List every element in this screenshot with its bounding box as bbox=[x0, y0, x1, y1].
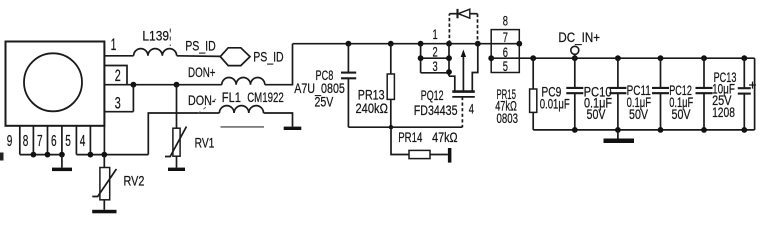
node PR13/PR14/gate bbox=[389, 125, 393, 129]
junction diode cathode lead bbox=[475, 41, 481, 47]
wire pin 6 leg bbox=[61, 126, 63, 155]
svg-text:4: 4 bbox=[469, 100, 474, 116]
svg-text:PS_ID: PS_ID bbox=[253, 49, 284, 64]
junction ladder right pin 2 bbox=[446, 55, 452, 61]
junction PC10 top bbox=[615, 55, 621, 61]
junction ladder right pin 3 / source lead bbox=[446, 69, 452, 75]
resistor PR13 bbox=[390, 44, 392, 74]
wire output rail DC_IN+ net bbox=[491, 57, 754, 59]
svg-text:7: 7 bbox=[37, 133, 43, 150]
wire pin 7 leg bbox=[47, 126, 49, 155]
svg-text:DON+: DON+ bbox=[188, 65, 216, 80]
svg-text:DC_IN+: DC_IN+ bbox=[558, 30, 600, 45]
noise dashes near L139 bbox=[169, 29, 171, 47]
svg-text:CM1922: CM1922 bbox=[247, 90, 284, 105]
choke FL1 top winding bbox=[222, 78, 265, 85]
ground (FL1 bottom) bbox=[284, 127, 302, 130]
svg-text:240kΩ: 240kΩ bbox=[356, 101, 388, 116]
junction ladder right rail / diode anode lead bbox=[446, 41, 452, 47]
node RV1 on DON+ bbox=[174, 82, 180, 88]
svg-text:50V: 50V bbox=[672, 107, 691, 122]
svg-text:7: 7 bbox=[503, 29, 508, 45]
junction pin box left edge / drain net bbox=[488, 55, 494, 61]
MOSFET PQ12 drain lead bbox=[472, 44, 478, 92]
wire PQ12 pins 1-3 ladder left rail bbox=[420, 44, 422, 73]
junction PC13 bottom bbox=[741, 127, 747, 133]
connector J1 circle bbox=[24, 53, 82, 111]
wire L139 to hexagon bbox=[177, 55, 221, 58]
ground (PR14, vertical bar) bbox=[448, 148, 452, 163]
choke FL1 bottom winding bbox=[219, 106, 263, 113]
svg-text:5: 5 bbox=[65, 133, 71, 150]
ground (RV1) bbox=[168, 168, 185, 171]
svg-text:1208: 1208 bbox=[712, 105, 735, 120]
ground (pin bus) bbox=[61, 155, 63, 168]
junction PC8 top bbox=[346, 41, 352, 47]
svg-text:50V: 50V bbox=[629, 107, 648, 122]
wire pin 8 leg bbox=[32, 126, 34, 155]
off-page connector hexagon PS_ID bbox=[220, 48, 250, 66]
wire ladder rung pin 2 bbox=[421, 57, 449, 59]
body diode of PQ12 bbox=[448, 14, 450, 44]
svg-text:PQ12: PQ12 bbox=[421, 88, 444, 103]
svg-text:6: 6 bbox=[51, 133, 57, 150]
capacitor PC12 bbox=[703, 58, 705, 87]
resistor PR15 bbox=[532, 58, 534, 89]
junction DC_IN+/PC9 top bbox=[572, 55, 578, 61]
wire pin 9 leg bbox=[19, 126, 21, 155]
junction PR15 top bbox=[530, 55, 536, 61]
junction PC12 top bbox=[701, 55, 707, 61]
svg-text:1: 1 bbox=[111, 35, 117, 54]
svg-text:2: 2 bbox=[115, 66, 121, 85]
svg-text:DON-: DON- bbox=[188, 93, 216, 108]
svg-text:8: 8 bbox=[503, 13, 508, 29]
svg-text:3: 3 bbox=[115, 93, 121, 112]
MOSFET PQ12 source lead bbox=[449, 76, 455, 91]
svg-text:3: 3 bbox=[433, 58, 438, 74]
resistor PR14 bbox=[391, 127, 409, 154]
svg-text:47kΩ: 47kΩ bbox=[432, 130, 458, 145]
ground (RV2) bbox=[92, 210, 116, 214]
wire DON+ (pin2 to FL1) bbox=[104, 84, 221, 86]
junction ladder left pin 2 bbox=[418, 55, 424, 61]
junction pin 8 bbox=[31, 152, 37, 158]
wire bus pins 5,4 to DON- bbox=[76, 154, 148, 156]
capacitor PC10 bbox=[617, 58, 619, 87]
wire FL1 bottom to ground bbox=[264, 113, 293, 127]
choke core line bbox=[221, 126, 265, 128]
svg-text:4: 4 bbox=[80, 133, 86, 150]
junction pin 4 bbox=[88, 152, 94, 158]
junction PC10 bottom / ground bbox=[615, 127, 621, 133]
varistor RV2 bbox=[103, 155, 105, 168]
junction PC11 top bbox=[658, 55, 664, 61]
wire gate lead pin 4 bbox=[461, 97, 463, 127]
wire right edge bbox=[754, 58, 756, 130]
wire DON- bbox=[148, 113, 219, 155]
pin 3 box bbox=[104, 111, 133, 113]
junction PR13 top bbox=[388, 41, 394, 47]
ground (main, bottom bus) bbox=[617, 130, 619, 139]
svg-text:L139: L139 bbox=[142, 29, 169, 44]
junction PC12 bottom bbox=[701, 127, 707, 133]
connector J1 body bbox=[6, 42, 105, 126]
wire FL1 top to riser bbox=[265, 44, 293, 85]
svg-text:9: 9 bbox=[7, 133, 13, 150]
svg-text:1: 1 bbox=[433, 26, 438, 42]
svg-text:PS_ID: PS_ID bbox=[185, 38, 216, 53]
capacitor PC8 bbox=[347, 44, 349, 73]
capacitor PC13 (polarized) bbox=[743, 58, 745, 88]
noise speck left edge bbox=[0, 153, 4, 161]
wire gate node to PR13/PR14 bbox=[391, 126, 462, 128]
svg-text:50V: 50V bbox=[587, 107, 606, 122]
junction ladder left rail bbox=[418, 41, 424, 47]
svg-text:5: 5 bbox=[503, 58, 508, 74]
svg-text:FD34435: FD34435 bbox=[414, 103, 458, 118]
svg-text:RV2: RV2 bbox=[124, 174, 145, 189]
wire pin1 to L139 bbox=[104, 55, 133, 57]
noise dashes leader near RV1 bbox=[198, 99, 216, 114]
svg-text:FL1: FL1 bbox=[222, 90, 241, 105]
junction pin 6 / ground bbox=[59, 152, 65, 158]
junction PC11 bottom bbox=[658, 127, 664, 133]
junction PC9 bottom bbox=[572, 127, 578, 133]
pin 2 box bbox=[104, 66, 127, 85]
junction pin 7 bbox=[45, 152, 51, 158]
junction pin box right edge bbox=[516, 41, 522, 47]
svg-text:PR14: PR14 bbox=[398, 130, 423, 145]
inductor L139 bbox=[134, 49, 177, 56]
svg-text:0803: 0803 bbox=[497, 111, 519, 126]
wire PQ12 pins 1-3 ladder right rail bbox=[448, 44, 450, 76]
node pin2/pin3 tie bbox=[131, 82, 137, 88]
MOSFET PQ12 gate plate bbox=[452, 96, 475, 98]
junction RV2 top bbox=[101, 152, 107, 158]
capacitor PC11 bbox=[660, 58, 662, 87]
wire pin2 to pin3 bbox=[132, 85, 134, 112]
wire pin 4 leg bbox=[89, 126, 91, 155]
wire pin 5 leg bbox=[75, 126, 77, 155]
MOSFET pin box 8/7/6/5 bbox=[491, 30, 519, 73]
wire ground bus pins 9,8,7,6 bbox=[20, 154, 62, 156]
svg-text:8: 8 bbox=[23, 133, 29, 150]
wire bottom return bus (ground net) bbox=[533, 129, 754, 131]
MOSFET PQ12 arrow shaft bbox=[462, 54, 464, 91]
svg-text:25V: 25V bbox=[315, 95, 334, 110]
junction PC13 top bbox=[741, 55, 747, 61]
wire ladder rung pin 3 bbox=[421, 72, 449, 74]
capacitor PC9 bbox=[574, 58, 576, 87]
varistor RV1 bbox=[176, 85, 178, 129]
wire top rail (switch input net) bbox=[293, 43, 520, 45]
svg-text:RV1: RV1 bbox=[195, 136, 215, 151]
svg-text:0.01μF: 0.01μF bbox=[540, 97, 570, 112]
wire connector edge leg bbox=[103, 126, 105, 155]
